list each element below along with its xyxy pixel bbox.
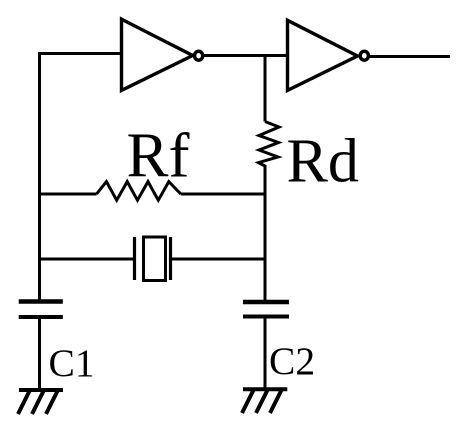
wire: C1 bottom plate to ground — [38, 318, 41, 391]
inverter U2 — [288, 20, 369, 90]
wire: C2 bottom plate to ground — [264, 318, 267, 391]
resistor Rd (vertical zigzag) — [259, 122, 280, 167]
wire: Rd bottom down to C2 top plate (node C) — [264, 165, 267, 304]
resistor Rf (horizontal zigzag) — [97, 182, 181, 201]
wire: Rf right lead to node C rail — [181, 193, 265, 196]
wire: U2 output — [370, 55, 451, 58]
ground (left) — [18, 390, 63, 414]
svg-text:Rd: Rd — [287, 128, 359, 196]
wire: left rail (node A) vertical — [38, 52, 41, 303]
capacitor C1 — [19, 302, 63, 318]
ground (right) — [242, 389, 287, 413]
capacitor C2 — [243, 302, 289, 317]
wire: U1 output to U2 input (node B) — [204, 54, 288, 57]
wire: node A to Rf left lead — [40, 193, 97, 196]
svg-text:C2: C2 — [269, 339, 315, 383]
wire: U1 input horizontal from node A corner — [40, 52, 122, 55]
crystal Y1 — [135, 237, 171, 281]
wire: node B drop to Rd top — [264, 56, 267, 122]
wire: node A to crystal left plate — [40, 258, 135, 261]
svg-text:Rf: Rf — [127, 121, 190, 191]
svg-text:C1: C1 — [49, 341, 95, 385]
inverter U1 — [122, 19, 203, 90]
wire: crystal right plate to node C rail — [171, 258, 266, 261]
